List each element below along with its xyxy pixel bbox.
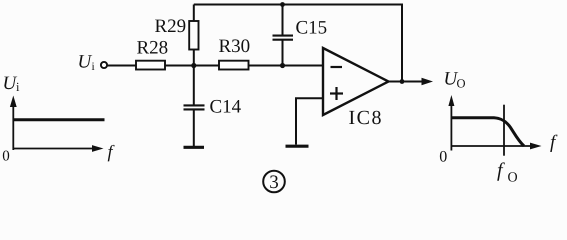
right graph: UO vs f <box>451 105 530 156</box>
svg-text:3: 3 <box>269 172 279 193</box>
node B junction dot <box>280 63 285 68</box>
right graph y-axis <box>450 106 452 151</box>
left graph x-axis arrow head <box>92 145 104 152</box>
node A junction dot <box>191 63 196 68</box>
input terminal Ui <box>101 62 107 68</box>
left graph x-axis <box>13 148 93 150</box>
resistor R28 <box>136 61 165 70</box>
right graph response curve <box>452 118 524 146</box>
svg-text:U: U <box>78 52 93 73</box>
left graph y-axis <box>12 105 14 150</box>
svg-text:i: i <box>16 80 20 94</box>
wire top feedback rail <box>194 5 402 82</box>
wire R30 to op-amp inverting input <box>249 65 324 67</box>
svg-text:R28: R28 <box>137 38 169 59</box>
svg-text:i: i <box>92 61 95 73</box>
right graph y-axis arrow head <box>448 95 454 106</box>
op-amp U IC8 <box>323 48 389 115</box>
svg-text:C15: C15 <box>296 18 328 39</box>
wire C15 drop from rail <box>282 5 284 35</box>
wire non-inverting input to ground <box>296 98 323 144</box>
output arrow head <box>422 78 434 86</box>
svg-text:R29: R29 <box>155 16 187 37</box>
svg-text:R30: R30 <box>219 36 251 57</box>
plus sign (non-inverting input) <box>330 87 343 100</box>
svg-text:f: f <box>108 142 116 162</box>
right graph x-axis arrow head <box>530 143 542 150</box>
svg-text:0: 0 <box>2 149 10 165</box>
capacitor C15 <box>273 36 294 40</box>
svg-text:f: f <box>550 132 558 153</box>
capacitor C14 <box>184 105 205 109</box>
right graph x-axis <box>451 145 530 147</box>
top rail junction dot <box>280 2 285 7</box>
minus sign (inverting input) <box>331 66 343 68</box>
left graph: Ui vs f <box>13 105 104 150</box>
output junction dot <box>400 79 405 84</box>
right graph cutoff tick at fO <box>503 105 505 156</box>
svg-text:IC8: IC8 <box>349 107 384 129</box>
svg-text:0: 0 <box>439 148 447 165</box>
figure number circle 3 <box>263 171 285 193</box>
wire R28 to node A <box>165 65 219 67</box>
left graph flat response line <box>13 118 104 121</box>
left graph y-axis arrow head <box>10 96 17 108</box>
wire C14 to ground <box>193 110 195 146</box>
wire node A up to R29 <box>193 50 195 66</box>
ground (C14) <box>184 146 205 149</box>
resistor R29 <box>189 21 198 50</box>
resistor R30 <box>219 61 249 70</box>
wire input to R28 <box>107 65 136 67</box>
wire op-amp output <box>389 81 425 83</box>
svg-text:C14: C14 <box>210 97 242 118</box>
svg-text:O: O <box>457 77 466 91</box>
svg-text:O: O <box>508 171 518 186</box>
wire node A down to C14 <box>193 66 195 106</box>
svg-text:f: f <box>497 160 505 182</box>
wire R29 to top rail <box>193 5 195 22</box>
ground (op-amp + input) <box>286 145 309 148</box>
wire C15 to node B <box>282 41 284 66</box>
